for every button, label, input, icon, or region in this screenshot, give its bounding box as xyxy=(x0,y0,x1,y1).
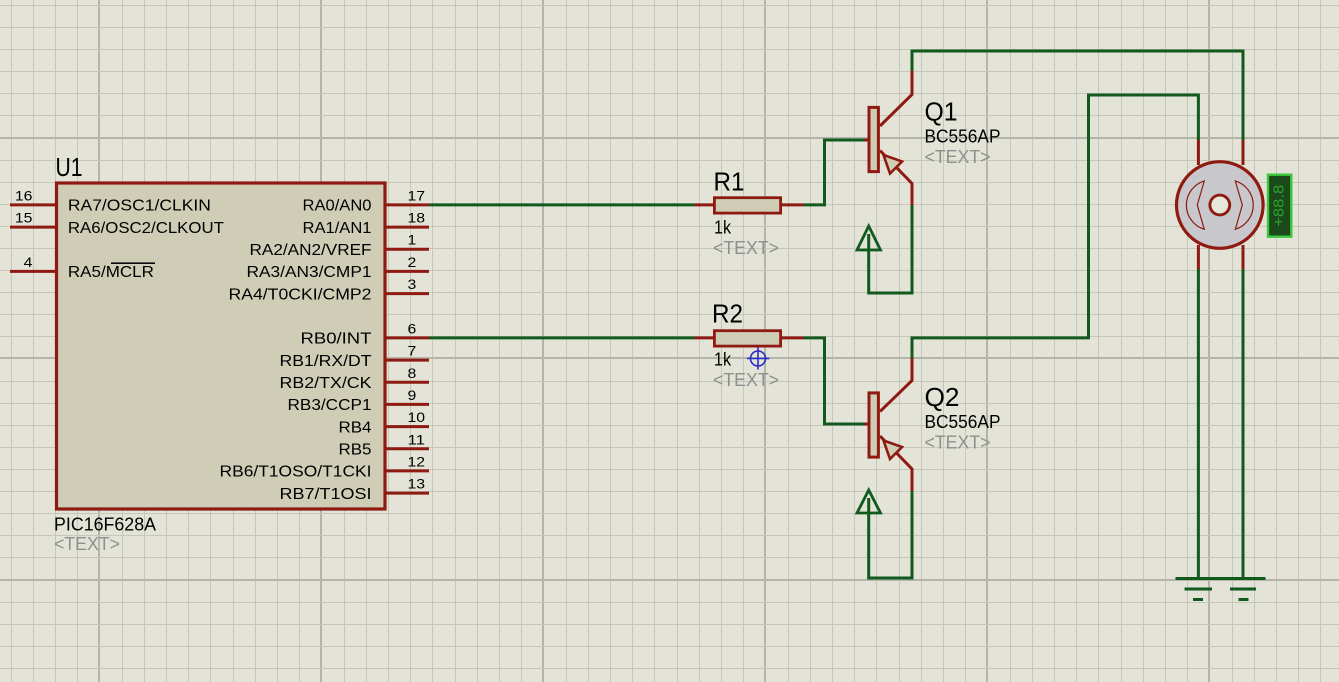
Q2 placeholder <TEXT> xyxy=(925,433,991,453)
svg-text:9: 9 xyxy=(408,388,417,403)
svg-text:RA7/OSC1/CLKIN: RA7/OSC1/CLKIN xyxy=(68,198,211,215)
svg-text:<TEXT>: <TEXT> xyxy=(713,370,779,390)
wire: U1 pin6 to R2 xyxy=(429,336,695,339)
svg-text:12: 12 xyxy=(408,454,426,469)
svg-text:15: 15 xyxy=(15,211,33,226)
Q1 placeholder <TEXT> xyxy=(925,147,991,167)
U1 pin 17 (RA0/AN0) right stub xyxy=(303,188,430,214)
transistor Q2 emitter with arrow xyxy=(880,436,912,491)
wire: Q2 emitter to power arrow xyxy=(869,491,912,578)
svg-text:1k: 1k xyxy=(714,350,732,370)
U1 pin 10 (RB4) right stub xyxy=(339,410,430,436)
R2 value 1k xyxy=(714,350,732,370)
U1 pin 12 (RB6/T1OSO/T1CKI) right stub xyxy=(220,454,430,480)
svg-text:PIC16F628A: PIC16F628A xyxy=(54,515,156,535)
motor terminal stubs (red) xyxy=(1198,140,1243,269)
svg-text:<TEXT>: <TEXT> xyxy=(925,147,991,167)
svg-text:1: 1 xyxy=(408,233,417,248)
svg-text:2: 2 xyxy=(408,255,417,270)
wire: motor bottom-right to ground xyxy=(1242,269,1245,577)
svg-text:7: 7 xyxy=(408,344,417,359)
U1 pin 2 (RA3/AN3/CMP1) right stub xyxy=(247,255,430,281)
U1 pin 6 (RB0/INT) right stub xyxy=(301,321,430,347)
U1 property placeholder <TEXT> xyxy=(54,534,120,554)
power terminal arrow (Q1 emitter supply) xyxy=(857,226,881,250)
svg-text:+88.8: +88.8 xyxy=(1271,185,1288,227)
voltmeter display +88.8 xyxy=(1268,175,1291,237)
resistor R1 body xyxy=(714,198,780,213)
U1 pin 1 (RA2/AN2/VREF) right stub xyxy=(250,233,430,259)
svg-text:RB3/CCP1: RB3/CCP1 xyxy=(288,397,372,414)
transistor Q2 collector xyxy=(880,358,912,412)
R1 placeholder <TEXT> xyxy=(713,238,779,258)
svg-text:10: 10 xyxy=(408,410,426,425)
ground symbol (right) xyxy=(1221,579,1266,600)
Q2 value BC556AP xyxy=(925,412,1001,432)
power terminal arrow (Q2 emitter supply) xyxy=(857,490,881,513)
svg-text:4: 4 xyxy=(24,255,33,270)
U1 value label PIC16F628A xyxy=(54,515,156,535)
resistor R1 leads xyxy=(695,203,804,206)
resistor R2 body xyxy=(714,331,780,346)
U1 pin 15 (RA6/OSC2/CLKOUT) left stub xyxy=(10,211,224,237)
svg-text:1k: 1k xyxy=(714,218,732,238)
svg-text:Q2: Q2 xyxy=(925,382,960,412)
svg-text:RA2/AN2/VREF: RA2/AN2/VREF xyxy=(250,242,372,259)
Q1 value BC556AP xyxy=(925,127,1001,147)
U1 pin 4 (RA5/MCLR) left stub xyxy=(10,255,155,281)
U1 pin 3 (RA4/T0CKI/CMP2) right stub xyxy=(229,277,430,303)
svg-text:RB4: RB4 xyxy=(339,419,372,436)
svg-text:RB5: RB5 xyxy=(339,441,372,458)
U1 pin 13 (RB7/T1OSI) right stub xyxy=(280,477,430,503)
svg-text:<TEXT>: <TEXT> xyxy=(54,534,120,554)
svg-text:11: 11 xyxy=(408,432,426,447)
svg-text:RA0/AN0: RA0/AN0 xyxy=(303,198,372,215)
svg-text:R1: R1 xyxy=(714,167,745,197)
wire: motor bottom-left to ground xyxy=(1197,269,1200,577)
svg-text:<TEXT>: <TEXT> xyxy=(925,433,991,453)
origin marker (blue crosshair) xyxy=(747,348,770,370)
svg-text:13: 13 xyxy=(408,477,426,492)
svg-text:RB1/RX/DT: RB1/RX/DT xyxy=(280,353,373,370)
R2 reference label xyxy=(712,299,743,329)
svg-text:U1: U1 xyxy=(56,152,83,182)
wire: R1 to Q1 base xyxy=(804,140,865,205)
svg-text:Q1: Q1 xyxy=(925,97,958,127)
svg-text:17: 17 xyxy=(408,188,426,203)
Q1 reference label xyxy=(925,97,958,127)
svg-text:RB0/INT: RB0/INT xyxy=(301,331,373,348)
transistor Q1 body bar xyxy=(869,107,878,171)
U1 pin 8 (RB2/TX/CK) right stub xyxy=(280,366,430,392)
transistor Q2 base stub xyxy=(865,423,869,426)
svg-text:R2: R2 xyxy=(712,299,743,329)
wire: Q2 collector to motor (left loop) xyxy=(912,95,1198,358)
svg-text:18: 18 xyxy=(408,211,426,226)
svg-text:3: 3 xyxy=(408,277,417,292)
transistor Q1 base stub xyxy=(865,139,869,142)
svg-text:BC556AP: BC556AP xyxy=(925,127,1001,147)
U1 pin 16 (RA7/OSC1/CLKIN) left stub xyxy=(10,188,211,214)
motor body xyxy=(1177,162,1264,249)
svg-text:8: 8 xyxy=(408,366,417,381)
transistor Q1 collector xyxy=(880,71,912,126)
svg-text:RA4/T0CKI/CMP2: RA4/T0CKI/CMP2 xyxy=(229,286,372,303)
U1 reference label xyxy=(56,152,83,182)
U1 pin 7 (RB1/RX/DT) right stub xyxy=(280,344,430,370)
transistor Q1 emitter with arrow xyxy=(880,151,912,206)
svg-text:<TEXT>: <TEXT> xyxy=(713,238,779,258)
U1 pin 18 (RA1/AN1) right stub xyxy=(303,211,430,237)
U1 pin 11 (RB5) right stub xyxy=(339,432,430,458)
R1 reference label xyxy=(714,167,745,197)
U1 pin 9 (RB3/CCP1) right stub xyxy=(288,388,430,414)
svg-text:6: 6 xyxy=(408,321,417,336)
svg-text:RA6/OSC2/CLKOUT: RA6/OSC2/CLKOUT xyxy=(68,220,225,237)
wire: U1 pin17 to R1 xyxy=(429,203,695,206)
svg-text:RA5/MCLR: RA5/MCLR xyxy=(68,264,154,281)
svg-text:RA3/AN3/CMP1: RA3/AN3/CMP1 xyxy=(247,264,372,281)
wire: Q1 collector to motor (top) xyxy=(912,51,1243,140)
svg-text:RA1/AN1: RA1/AN1 xyxy=(303,220,372,237)
svg-text:RB6/T1OSO/T1CKI: RB6/T1OSO/T1CKI xyxy=(220,464,372,481)
wire: Q1 emitter to power arrow xyxy=(869,205,912,293)
IC U1 body (PIC16F628A) xyxy=(57,183,386,509)
svg-text:RB2/TX/CK: RB2/TX/CK xyxy=(280,375,373,392)
wire: R2 to Q2 base xyxy=(804,338,865,424)
ground symbol (left) xyxy=(1176,579,1221,600)
svg-text:RB7/T1OSI: RB7/T1OSI xyxy=(280,486,372,503)
R1 value 1k xyxy=(714,218,732,238)
R2 placeholder <TEXT> xyxy=(713,370,779,390)
transistor Q2 body bar xyxy=(869,393,878,457)
svg-text:BC556AP: BC556AP xyxy=(925,412,1001,432)
resistor R2 leads xyxy=(695,336,804,339)
svg-text:16: 16 xyxy=(15,188,33,203)
Q2 reference label xyxy=(925,382,960,412)
